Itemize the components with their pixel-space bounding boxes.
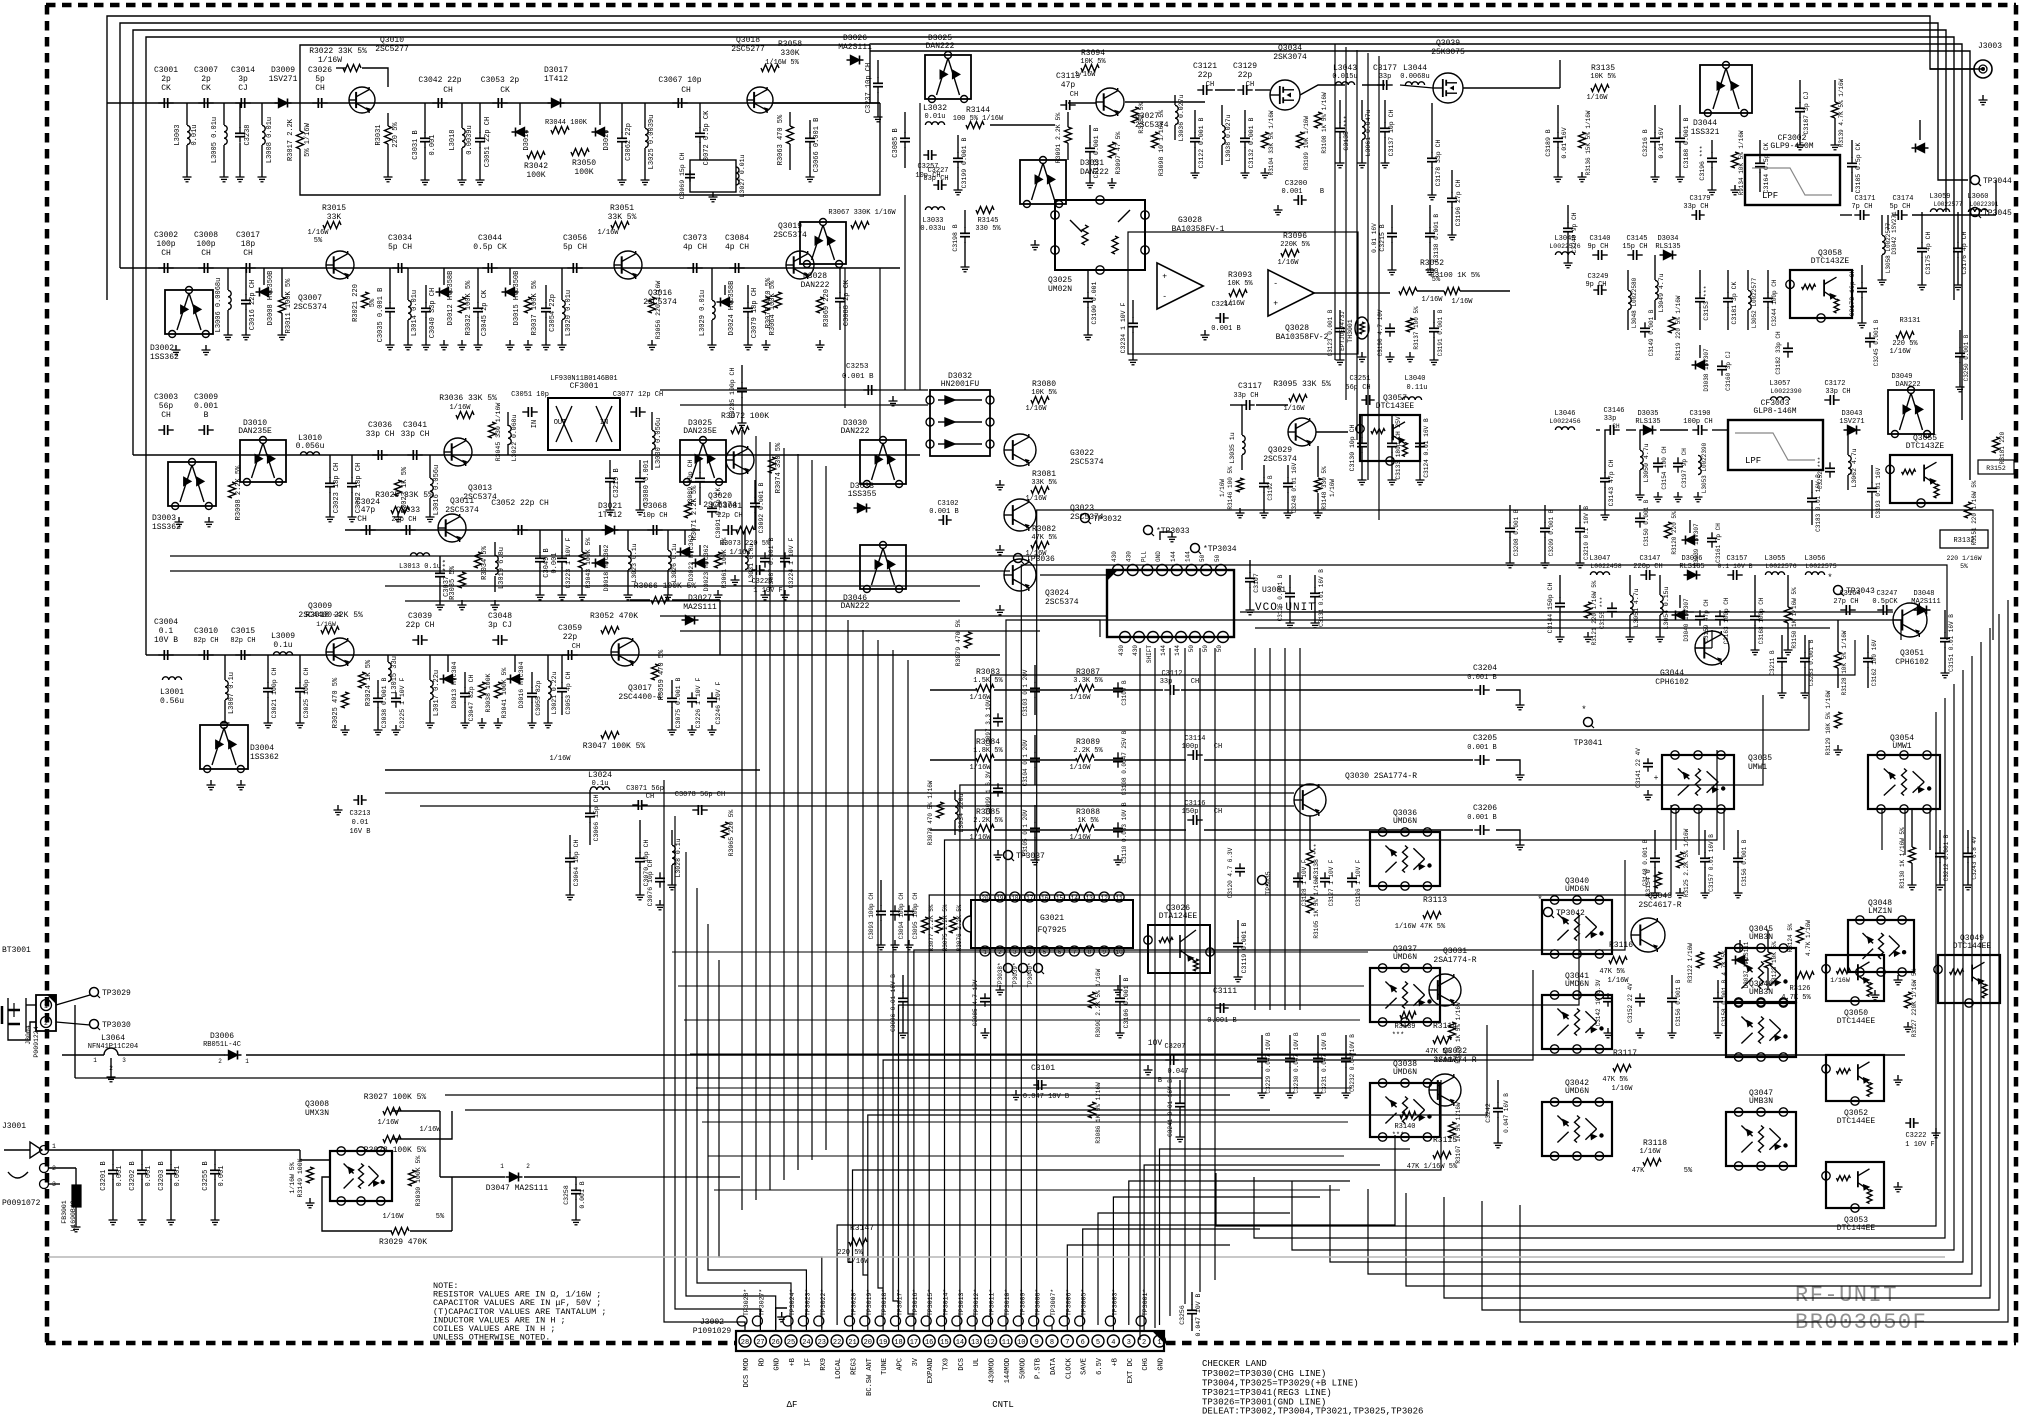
ground row4 d <box>671 725 673 730</box>
svg-text:C3149 0.001 B: C3149 0.001 B <box>1648 309 1655 356</box>
svg-text:D3002: D3002 <box>150 344 174 353</box>
wire row3 main <box>133 454 920 456</box>
capacitor C3129 <box>1237 89 1243 91</box>
ground matrix <box>997 850 999 855</box>
svg-text:5: 5 <box>1096 1339 1100 1347</box>
svg-text:PLL: PLL <box>1140 551 1147 562</box>
svg-text:25K3075: 25K3075 <box>1431 48 1465 57</box>
inductor L3015 <box>388 662 391 681</box>
svg-text:1SV271: 1SV271 <box>269 75 298 84</box>
resistor R3150 <box>1785 607 1792 623</box>
svg-text:D3038 1SV307: D3038 1SV307 <box>1703 348 1710 392</box>
svg-text:L3026 0.1u: L3026 0.1u <box>671 543 678 582</box>
svg-text:C3190 4.7 10V: C3190 4.7 10V <box>1377 309 1384 356</box>
svg-text:2: 2 <box>526 1163 530 1170</box>
svg-text:RD: RD <box>758 1358 766 1366</box>
svg-text:L3014 0.01u: L3014 0.01u <box>411 290 419 336</box>
capacitor C3251 <box>1361 399 1366 401</box>
svg-text:C3145: C3145 <box>1626 235 1647 243</box>
capacitor C3216 <box>1654 132 1656 138</box>
svg-text:Q3025: Q3025 <box>1048 276 1072 285</box>
pin 7 of J3002 <box>1061 1335 1073 1347</box>
capacitor C3107 <box>1249 572 1251 578</box>
svg-text:R3126: R3126 <box>1789 985 1810 993</box>
capacitor C3066 <box>809 132 811 138</box>
resistor R3032 <box>459 297 466 313</box>
test point TP3037 <box>1004 851 1013 860</box>
capacitor C3064 <box>569 852 571 858</box>
resistor R3100 <box>1444 288 1460 295</box>
capacitor C3009 <box>198 429 204 431</box>
svg-text:TP3030: TP3030 <box>102 1021 131 1030</box>
svg-text:L0022456: L0022456 <box>1549 418 1580 425</box>
ground C3200 <box>1277 205 1279 210</box>
svg-text:D3013 HVC304: D3013 HVC304 <box>451 661 458 708</box>
svg-text:C3068: C3068 <box>643 502 667 511</box>
svg-text:1/16W 5%: 1/16W 5% <box>765 59 799 67</box>
resistor R3075 <box>936 917 943 933</box>
svg-text:22p CH: 22p CH <box>391 516 416 524</box>
svg-text:R3080: R3080 <box>1032 380 1056 389</box>
wire center vertical bundle <box>848 620 853 1262</box>
capacitor C3085 <box>984 993 986 998</box>
svg-text:R3116: R3116 <box>1609 941 1633 950</box>
svg-text:C3035 0.001 B: C3035 0.001 B <box>377 288 385 343</box>
capacitor C3034 <box>392 267 398 269</box>
svg-text:L3031 6.8u: L3031 6.8u <box>748 543 755 582</box>
resistor R3070 <box>775 292 782 308</box>
svg-text:L0022575: L0022575 <box>1805 563 1836 570</box>
svg-text:1: 1 <box>500 1163 504 1170</box>
svg-text:2SC5374: 2SC5374 <box>445 506 479 515</box>
svg-text:3V: 3V <box>912 1357 920 1366</box>
IC Q3048 LMZ1N <box>1848 920 1914 972</box>
svg-text:D3036: D3036 <box>1681 555 1702 563</box>
resistor R3030 <box>409 1170 416 1186</box>
IC Q3042 UMD6N <box>1542 1102 1612 1156</box>
svg-text:23: 23 <box>818 1339 826 1347</box>
resistor R3151 <box>1965 502 1972 518</box>
svg-text:C3126 1 10V F: C3126 1 10V F <box>1355 859 1362 906</box>
transistor Q3010 <box>349 87 375 113</box>
capacitor C3038 <box>377 692 379 698</box>
test point TP3024 <box>783 1316 793 1326</box>
svg-text:C3248 0.01 16V: C3248 0.01 16V <box>1291 462 1298 513</box>
svg-text:C3014: C3014 <box>231 66 255 75</box>
svg-text:L3049 4.7u: L3049 4.7u <box>1658 273 1665 312</box>
svg-text:C3025 100p CH: C3025 100p CH <box>303 668 310 719</box>
IC Q3047 UMB3N <box>1726 1112 1796 1166</box>
resistor R3073 <box>736 527 754 534</box>
inductor L3028 <box>672 845 675 864</box>
svg-text:C3084: C3084 <box>725 234 749 243</box>
svg-text:R3136 15K 5% 1/16W: R3136 15K 5% 1/16W <box>1585 110 1592 175</box>
wire left riser bundle into connector <box>664 780 745 1328</box>
inductor L3044 <box>1405 82 1424 85</box>
svg-text:Q3028: Q3028 <box>1285 324 1309 333</box>
ground C3101 <box>1015 1090 1017 1095</box>
IC Q3054 UMW1 <box>1868 755 1940 809</box>
wire row1 box top <box>300 45 870 103</box>
ground row3 b <box>609 505 611 510</box>
svg-text:R3036 33K 5%: R3036 33K 5% <box>439 394 497 403</box>
svg-text:0.01 16V: 0.01 16V <box>1561 127 1568 158</box>
pin 3 of J3002 <box>1123 1335 1135 1347</box>
svg-text:220 5%: 220 5% <box>392 122 400 148</box>
ground C3242 <box>1497 1138 1499 1143</box>
svg-text:L3023 0.1u: L3023 0.1u <box>631 543 638 582</box>
svg-text:TP3009*: TP3009* <box>1019 1289 1026 1316</box>
svg-text:EXT DC: EXT DC <box>1127 1358 1135 1383</box>
svg-text:0.001 B: 0.001 B <box>842 373 874 381</box>
svg-text:6: 6 <box>1081 1339 1085 1347</box>
svg-text:RX9: RX9 <box>820 1358 828 1371</box>
ground FQ right <box>1117 985 1119 990</box>
svg-text:C3202 B: C3202 B <box>129 1161 137 1190</box>
test point TP3027 <box>752 1316 762 1326</box>
svg-text:P0091224: P0091224 <box>33 1026 40 1057</box>
wire upper mid verticals <box>904 195 906 390</box>
svg-text:1/16W: 1/16W <box>549 755 571 763</box>
svg-text:C3163 100p CH: C3163 100p CH <box>1723 597 1730 644</box>
ground row4 c <box>464 718 466 723</box>
diode pack D3010 DAN235E <box>240 440 286 482</box>
svg-text:C3251: C3251 <box>1349 375 1370 383</box>
svg-text:5p: 5p <box>315 75 325 84</box>
text R3152b <box>1978 460 2014 474</box>
capacitor C3118 <box>1089 142 1091 148</box>
svg-text:330K: 330K <box>780 49 799 58</box>
svg-text:0.001 B: 0.001 B <box>1467 814 1496 822</box>
ground C3213 <box>337 805 339 810</box>
wire row35 <box>345 529 700 531</box>
svg-text:C3172: C3172 <box>1824 380 1845 388</box>
svg-text:C3171: C3171 <box>1854 195 1875 203</box>
inductor L3049 <box>1655 280 1658 299</box>
svg-text:-: - <box>1273 279 1278 288</box>
svg-text:CK: CK <box>500 86 510 95</box>
svg-text:R3094: R3094 <box>1081 49 1105 58</box>
svg-text:REG3: REG3 <box>851 1358 859 1375</box>
inductor L3047 row <box>1590 572 1609 575</box>
svg-text:C3067 10p: C3067 10p <box>658 76 701 85</box>
svg-text:R3025 470 5%: R3025 470 5% <box>332 677 340 728</box>
svg-text:7: 7 <box>1065 1339 1069 1347</box>
transistor Q3051 CPH6102 <box>1893 603 1927 637</box>
svg-text:D3026: D3026 <box>843 34 867 43</box>
capacitor C3073 <box>687 267 693 269</box>
capacitor C3241 <box>1179 1097 1181 1103</box>
capacitor C3237 <box>877 77 879 83</box>
wire matrix h3 <box>930 829 976 831</box>
svg-text:D3049: D3049 <box>1891 373 1912 381</box>
svg-text:2SC4617-R: 2SC4617-R <box>1638 901 1681 910</box>
svg-text:C3235 100p CH: C3235 100p CH <box>729 368 736 419</box>
capacitor C3002 <box>158 267 164 269</box>
capacitor C3040 <box>425 302 427 308</box>
svg-text:L3053 L0022390: L3053 L0022390 <box>1701 442 1708 493</box>
svg-text:430: 430 <box>1132 645 1139 656</box>
diode pack D3004 1SS362 <box>200 725 248 769</box>
test point TP3017 <box>891 1316 901 1326</box>
svg-text:TP3012*: TP3012* <box>973 1289 980 1316</box>
svg-text:2.2K 5%: 2.2K 5% <box>1073 747 1103 755</box>
transistor Q3011 <box>438 514 466 542</box>
svg-text:CH: CH <box>646 793 654 801</box>
capacitor C3144 <box>1559 597 1561 603</box>
svg-text:L3046: L3046 <box>1554 410 1575 418</box>
transistor Q3009 <box>326 638 354 666</box>
svg-text:C3174: C3174 <box>1892 195 1913 203</box>
capacitor C3051 <box>479 132 481 138</box>
transistor Q3013 <box>444 438 472 466</box>
svg-text:TX9: TX9 <box>943 1358 951 1371</box>
svg-text:C3237 10p CH: C3237 10p CH <box>865 63 873 113</box>
svg-text:R3104 33K 5% 1/16W: R3104 33K 5% 1/16W <box>1268 110 1275 175</box>
capacitor C3150 <box>1639 512 1641 518</box>
capacitor C3056 <box>567 267 573 269</box>
svg-text:1/16W: 1/16W <box>1830 977 1850 984</box>
svg-text:33p CH: 33p CH <box>366 430 395 439</box>
svg-text:10K 5%: 10K 5% <box>1080 58 1106 66</box>
resistor R3123 <box>1765 952 1772 968</box>
wire row4 main <box>146 654 1000 656</box>
svg-text:L3035 1u: L3035 1u <box>1229 432 1236 463</box>
resistor R3008 <box>229 482 236 498</box>
ground C3215 C3138 <box>1391 265 1393 270</box>
svg-text:50: 50 <box>1214 554 1221 562</box>
resistor R3017 <box>297 131 304 149</box>
svg-text:DAN222: DAN222 <box>1895 381 1920 389</box>
svg-text:1.5K 5%: 1.5K 5% <box>973 677 1003 685</box>
resistor R3129 <box>1835 712 1842 728</box>
svg-text:CHG: CHG <box>1142 1358 1150 1371</box>
svg-text:100K: 100K <box>574 168 593 177</box>
svg-text:R3144: R3144 <box>966 106 990 115</box>
svg-text:C3003: C3003 <box>154 393 178 402</box>
svg-text:1.8K 5%: 1.8K 5% <box>973 747 1003 755</box>
ground D3002 b <box>205 345 207 350</box>
svg-text:2SC5374: 2SC5374 <box>1263 455 1297 464</box>
test point TP3038 <box>1004 964 1013 973</box>
svg-text:1/16W: 1/16W <box>1889 348 1911 356</box>
transistor Q3052 DTC144EE <box>1826 1055 1884 1101</box>
inductor L3035 <box>1242 435 1245 454</box>
IC Q3041 UMD6N <box>1542 995 1612 1049</box>
svg-text:47K 5%: 47K 5% <box>1602 1076 1628 1084</box>
ground row2 c <box>389 340 391 345</box>
inductor L3021 <box>548 680 551 699</box>
capacitor C3066b <box>589 807 591 813</box>
wire right long h <box>1290 611 1893 613</box>
resistor R3122 <box>1697 952 1704 968</box>
svg-text:B: B <box>204 411 209 420</box>
resistor R3134 <box>1732 152 1739 168</box>
svg-text:C3103 0.1 20V: C3103 0.1 20V <box>1022 669 1029 716</box>
svg-text:Q3029: Q3029 <box>1268 446 1292 455</box>
svg-text:15p CH: 15p CH <box>1622 243 1647 251</box>
resistor R3077 <box>922 917 929 933</box>
capacitor C3204 <box>1474 689 1480 691</box>
svg-text:Q3024: Q3024 <box>1045 589 1069 598</box>
diode D3043 1SV271 <box>1844 429 1861 431</box>
svg-text:L3005 0.01u: L3005 0.01u <box>211 117 219 163</box>
wire row2 main <box>120 267 900 269</box>
diode pack D3002 1SS362 <box>165 290 213 334</box>
svg-text:UMD6N: UMD6N <box>1565 980 1589 989</box>
ground C3220 <box>734 575 736 580</box>
capacitor C3248 <box>1287 477 1289 483</box>
svg-text:C3116: C3116 <box>1184 800 1205 808</box>
svg-text:C3128 1 10V F: C3128 1 10V F <box>1301 859 1308 906</box>
diode D3033 1SS355 <box>854 507 871 509</box>
resistor R3086 <box>1089 1102 1096 1118</box>
resistor R3109 <box>1297 132 1304 148</box>
capacitor C3033 <box>400 529 406 531</box>
svg-text:TP3007*: TP3007* <box>1050 1289 1057 1316</box>
capacitor C3032 <box>351 477 353 483</box>
svg-text:L0022576: L0022576 <box>1765 563 1796 570</box>
svg-text:R3088: R3088 <box>1076 808 1100 817</box>
svg-text:1/16W: 1/16W <box>382 1213 404 1221</box>
svg-text:11: 11 <box>1002 1339 1010 1347</box>
capacitor C3135 <box>1339 122 1341 128</box>
svg-text:0.047 10V B: 0.047 10V B <box>1023 1093 1069 1101</box>
svg-text:C3244 100p CH: C3244 100p CH <box>1771 279 1778 326</box>
capacitor C3155 <box>1611 602 1613 608</box>
diode D3006 RB051L-40 <box>225 1054 242 1056</box>
diode D3017 <box>548 102 565 104</box>
svg-text:TP3019*: TP3019* <box>866 1289 873 1316</box>
svg-text:R3027 100K 5%: R3027 100K 5% <box>364 1093 427 1102</box>
ground C3141 <box>1647 790 1649 795</box>
capacitor C3025 <box>299 682 301 688</box>
svg-text:DAN235E: DAN235E <box>238 427 272 436</box>
svg-text:0.001: 0.001 <box>174 1165 182 1186</box>
wire mid h 390 <box>660 389 928 391</box>
ground q3029 cluster <box>1239 508 1241 513</box>
capacitor C3224 <box>784 552 786 558</box>
svg-text:R3047 100K 5%: R3047 100K 5% <box>583 742 646 751</box>
svg-text:+: + <box>1273 300 1278 309</box>
svg-text:1/16W: 1/16W <box>377 1119 399 1127</box>
ground R3139 <box>1834 140 1836 145</box>
capacitor C3100 <box>1087 292 1089 298</box>
svg-text:C3085 B: C3085 B <box>892 128 900 157</box>
svg-text:L3054 0.15u: L3054 0.15u <box>1663 586 1670 629</box>
svg-text:R3108 1K 5% 1/16W: R3108 1K 5% 1/16W <box>1321 92 1328 154</box>
svg-text:TP3032: TP3032 <box>1093 515 1122 524</box>
svg-text:P.STB: P.STB <box>1035 1358 1043 1379</box>
svg-text:R3071 2.2K 5%: R3071 2.2K 5% <box>691 485 699 540</box>
pin 11 of J3002 <box>1000 1335 1012 1347</box>
ground row4 b <box>344 725 346 730</box>
wire bias row1 <box>300 103 880 195</box>
svg-text:C3242: C3242 <box>1485 1103 1492 1123</box>
svg-text:RLS135: RLS135 <box>1679 563 1704 571</box>
test point TP3033 <box>1144 526 1153 535</box>
svg-text:33K: 33K <box>327 213 342 222</box>
svg-text:50: 50 <box>1202 645 1209 653</box>
capacitor C3163 <box>1719 610 1721 616</box>
svg-text:R3131: R3131 <box>1899 317 1920 325</box>
capacitor C3112 <box>1164 689 1170 691</box>
svg-text:D3016 HVC304: D3016 HVC304 <box>518 661 525 708</box>
resistor R3146 <box>1237 478 1244 492</box>
transistor Q3031 2SA1774-R <box>1429 974 1461 1006</box>
capacitor C3131 <box>1314 587 1316 593</box>
capacitor C3099 <box>997 783 999 788</box>
resistor R3097 <box>1109 142 1116 158</box>
svg-text:Q3009: Q3009 <box>308 602 332 611</box>
capacitor C3080 <box>639 472 641 478</box>
svg-text:C3045 2p CK: C3045 2p CK <box>481 289 489 336</box>
ground C3258 <box>575 1215 577 1220</box>
svg-text:10V B: 10V B <box>154 636 178 645</box>
svg-text:1T412: 1T412 <box>544 75 568 84</box>
inductor L3051 <box>1630 595 1633 614</box>
inductor L3053 <box>1698 455 1701 474</box>
svg-text:C3047 82p CH: C3047 82p CH <box>468 674 475 721</box>
svg-text:C3007: C3007 <box>194 66 218 75</box>
svg-text:L3043: L3043 <box>1333 64 1357 73</box>
test point TP3009 <box>1013 1316 1023 1326</box>
capacitor C3148 <box>1654 852 1656 858</box>
IC Q3035 UMW1 <box>1662 755 1734 809</box>
svg-text:R3139: R3139 <box>1394 1023 1415 1031</box>
pin 21 of J3002 <box>847 1335 859 1347</box>
ground Q3010 emitter <box>387 172 389 177</box>
capacitor C3198 <box>964 227 966 233</box>
pin 23 of J3002 <box>816 1335 828 1347</box>
capacitor C3196b <box>1711 152 1713 158</box>
resistor R3091 <box>1065 127 1072 143</box>
svg-text:1/16W: 1/16W <box>316 621 336 628</box>
resistor R3036 <box>456 412 474 419</box>
svg-text:C3142 10 6.3V: C3142 10 6.3V <box>1595 979 1602 1026</box>
ground rt b <box>1654 172 1656 177</box>
inductor L3032 <box>925 122 944 125</box>
resistor R3119 <box>1669 317 1676 333</box>
inductor L3058 <box>1882 235 1885 254</box>
capacitor C3252 <box>1829 462 1831 468</box>
resistor R3152 <box>1132 107 1139 123</box>
capacitor C3145 <box>1627 254 1633 256</box>
svg-text:R3041 100K 5%: R3041 100K 5% <box>501 668 508 719</box>
svg-text:82p CH: 82p CH <box>193 637 218 645</box>
ground row2 d <box>443 340 445 345</box>
svg-text:0.001 B: 0.001 B <box>1211 325 1240 333</box>
svg-text:33p CH: 33p CH <box>1825 388 1850 396</box>
wire top bus 6 <box>870 51 1970 480</box>
svg-text:R3129 10K 5% 1/16W: R3129 10K 5% 1/16W <box>1825 690 1832 755</box>
svg-text:15: 15 <box>1056 895 1064 902</box>
capacitor C3121 <box>1197 89 1203 91</box>
capacitor C3143 <box>1604 472 1606 478</box>
capacitor C3076 <box>659 872 661 878</box>
svg-text:TP3043: TP3043 <box>1846 587 1875 596</box>
svg-text:0.001 B: 0.001 B <box>1207 1017 1236 1025</box>
test point TP3012 <box>967 1316 977 1326</box>
IC Q3046 UMB3N <box>1726 1003 1796 1057</box>
capacitor C3235 <box>741 382 743 388</box>
capacitor C3132 <box>1244 132 1246 138</box>
resistor R3047 <box>601 732 619 739</box>
svg-text:R3069 220: R3069 220 <box>823 289 831 327</box>
svg-text:EXPAND: EXPAND <box>927 1358 935 1383</box>
capacitor C3199 <box>957 152 959 158</box>
inductor L3022 <box>508 425 511 444</box>
